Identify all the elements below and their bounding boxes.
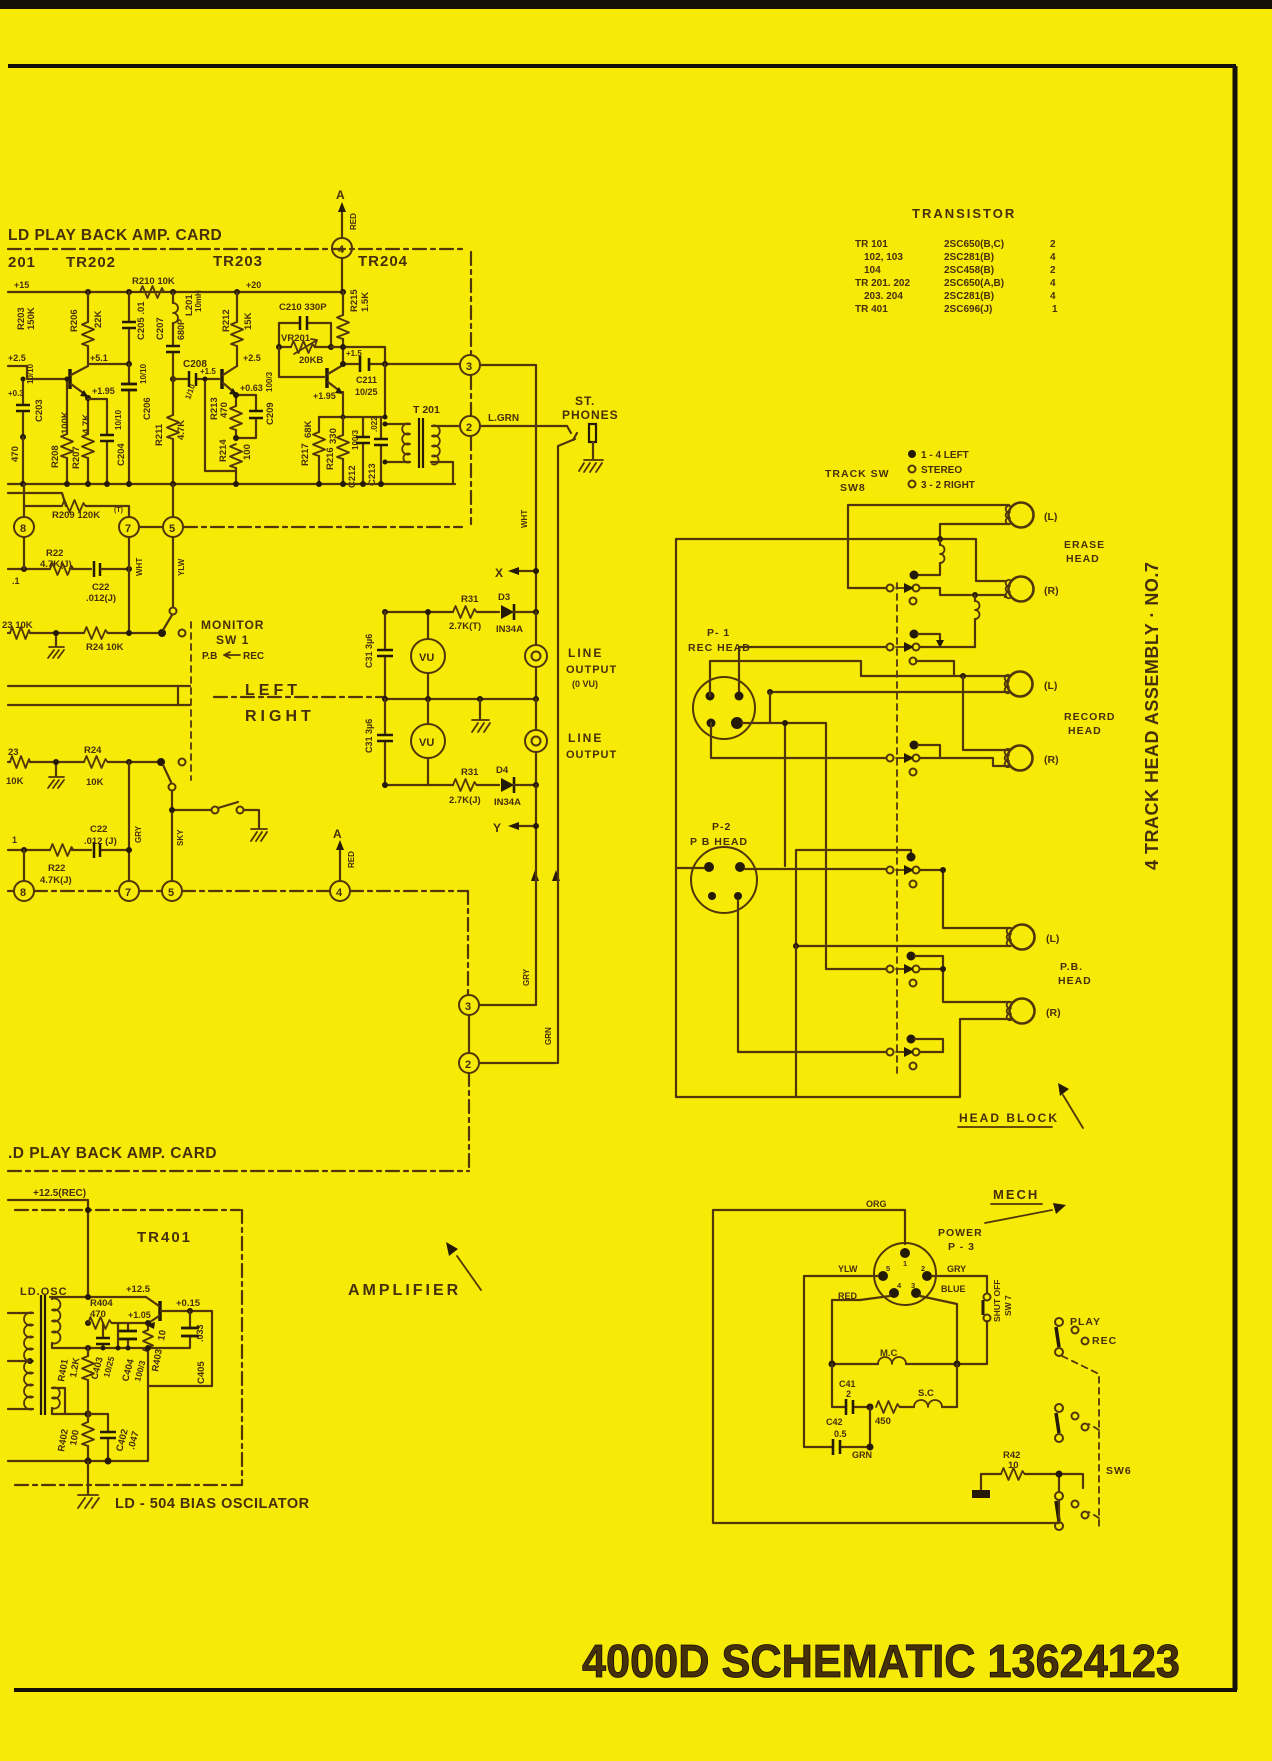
node 7 lower [119, 881, 139, 901]
record head L [1005, 672, 1033, 697]
svg-text:SKY: SKY [176, 829, 185, 846]
svg-text:GRN: GRN [544, 1027, 553, 1045]
svg-text:X: X [495, 566, 503, 580]
svg-text:+1.5: +1.5 [200, 367, 216, 376]
svg-text:C213: C213 [367, 463, 378, 486]
svg-text:SW 1: SW 1 [216, 633, 249, 647]
line output jack upper [525, 645, 547, 667]
wire secondary to node 2 [432, 425, 459, 427]
wire node8 stub [23, 537, 25, 569]
card boundary top dash-dot [8, 248, 466, 250]
svg-text:R24: R24 [84, 745, 102, 756]
svg-text:.022: .022 [370, 416, 379, 432]
svg-text:10: 10 [156, 1329, 169, 1341]
svg-text:MONITOR: MONITOR [201, 618, 264, 632]
node 3 [460, 355, 480, 375]
svg-text:OUTPUT: OUTPUT [566, 664, 617, 676]
svg-text:470: 470 [90, 1309, 106, 1320]
svg-text:10/10: 10/10 [114, 409, 123, 430]
svg-text:R31: R31 [461, 594, 479, 605]
transformer T401 primary winding [24, 1313, 33, 1410]
svg-text:R212: R212 [221, 309, 232, 332]
wire mech outer loop [713, 1210, 1059, 1523]
svg-text:R208: R208 [50, 445, 61, 468]
transformer T401 secondary upper [52, 1299, 60, 1344]
svg-text:10K: 10K [6, 776, 24, 787]
svg-text:4: 4 [336, 887, 343, 899]
wire erase R bottom loop [920, 588, 1005, 597]
svg-text:TR 401: TR 401 [855, 304, 888, 315]
svg-text:100: 100 [242, 444, 253, 460]
node 5 [163, 517, 183, 537]
svg-text:SW8: SW8 [840, 482, 866, 494]
phone jack [567, 426, 577, 440]
svg-text:R22: R22 [48, 863, 65, 874]
amplifier arrow [457, 1256, 481, 1290]
svg-text:5: 5 [168, 887, 174, 899]
ground R23 [55, 633, 57, 646]
svg-text:R206: R206 [69, 309, 80, 332]
inductor erase L [940, 545, 945, 563]
svg-text:RIGHT: RIGHT [245, 708, 315, 725]
svg-text:RECORD: RECORD [1064, 711, 1116, 723]
switch SW6 play/rec group [1055, 1318, 1063, 1326]
head block arrow [1063, 1095, 1083, 1128]
svg-text:R215: R215 [349, 289, 360, 312]
node 7 [119, 517, 139, 537]
svg-text:.D PLAY BACK AMP. CARD: .D PLAY BACK AMP. CARD [8, 1145, 217, 1162]
svg-text:C210 330P: C210 330P [279, 302, 327, 313]
svg-text:TRANSISTOR: TRANSISTOR [912, 206, 1016, 221]
svg-text:L.GRN: L.GRN [488, 413, 519, 424]
wire erase L top [848, 505, 1009, 588]
svg-text:TR 101: TR 101 [855, 239, 888, 250]
svg-text:4: 4 [1050, 278, 1056, 289]
wire output column to lower card [535, 785, 537, 1005]
wire P-2 BR to pb row 3 [738, 901, 886, 1052]
wire erase L bottom [940, 524, 1009, 539]
switch SW8 erase row 2 [910, 630, 919, 639]
svg-text:ORG: ORG [866, 1199, 887, 1209]
wire collector node TR202 [88, 363, 129, 365]
svg-text:R214: R214 [218, 439, 229, 462]
svg-text:GRN: GRN [852, 1450, 872, 1460]
svg-text:C206: C206 [142, 397, 153, 420]
svg-text:5: 5 [886, 1264, 890, 1273]
node 5 lower [162, 881, 182, 901]
svg-text:VU: VU [419, 737, 434, 749]
osc card boundary right [241, 1210, 243, 1485]
svg-text:LD PLAY BACK AMP. CARD: LD PLAY BACK AMP. CARD [8, 227, 222, 244]
svg-text:P B HEAD: P B HEAD [690, 836, 748, 848]
wire YLW [804, 1276, 878, 1447]
VU meter lower [411, 724, 445, 758]
svg-text:450: 450 [875, 1416, 891, 1427]
svg-text:HEAD: HEAD [1066, 553, 1100, 565]
switch SW8 erase row 1 [887, 585, 894, 592]
wire pb L bottom [796, 945, 1010, 947]
svg-text:SHUT OFF: SHUT OFF [992, 1280, 1002, 1323]
transistor TR202 [68, 369, 72, 389]
svg-text:2: 2 [466, 422, 472, 434]
border frame top line [8, 64, 1236, 68]
wire node3 lower to GRY riser [479, 1004, 535, 1006]
svg-text:4.7K(J): 4.7K(J) [40, 875, 72, 886]
svg-text:TR202: TR202 [66, 254, 116, 271]
lower card right edge continued [468, 1015, 470, 1053]
border frame bottom line [14, 1688, 1237, 1692]
ground blob R42 [980, 1474, 982, 1490]
svg-text:IN34A: IN34A [494, 797, 521, 808]
svg-text:C41: C41 [839, 1379, 856, 1389]
svg-text:VR201: VR201 [281, 333, 311, 344]
legend STEREO [909, 466, 916, 473]
svg-text:R210 10K: R210 10K [132, 276, 175, 287]
wire YLW line node5 [172, 537, 174, 607]
wire osc mid bus [88, 1347, 148, 1349]
svg-text:0.5: 0.5 [834, 1429, 847, 1439]
switch SW6 middle group [1055, 1404, 1063, 1412]
ground osc [87, 1461, 89, 1494]
svg-text:2SC650(B,C): 2SC650(B,C) [944, 239, 1004, 250]
svg-text:C204: C204 [116, 443, 127, 466]
node 8 [14, 517, 34, 537]
svg-text:(L): (L) [1044, 511, 1057, 523]
wire GRY line to node7 lower [128, 762, 130, 881]
svg-text:470: 470 [219, 402, 230, 418]
wire node2 lower to GRN riser [479, 1062, 556, 1064]
svg-text:15K: 15K [243, 312, 254, 330]
wire node8 lower stub [23, 850, 25, 881]
wire left channel line [8, 685, 190, 687]
svg-text:.012(J): .012(J) [86, 593, 116, 604]
svg-text:VU: VU [419, 652, 434, 664]
wire GRY to SW7 [932, 1276, 987, 1293]
svg-text:1: 1 [12, 835, 17, 845]
svg-text:2SC281(B): 2SC281(B) [944, 252, 994, 263]
svg-text:GRY: GRY [522, 968, 531, 986]
svg-text:+0.63: +0.63 [240, 383, 263, 393]
svg-text:D3: D3 [498, 592, 510, 603]
svg-text:+2.5: +2.5 [8, 353, 26, 363]
svg-text:LINE: LINE [568, 646, 603, 660]
svg-text:WHT: WHT [135, 558, 144, 576]
svg-text:4: 4 [1050, 252, 1056, 263]
svg-text:10/10: 10/10 [26, 363, 35, 384]
left/right divider dash-dot [214, 696, 385, 698]
node 2 [460, 416, 480, 436]
node 8 lower [14, 881, 34, 901]
svg-text:104: 104 [864, 265, 881, 276]
wire emitter network TR204 [319, 392, 385, 417]
svg-text:2.7K(J): 2.7K(J) [449, 795, 481, 806]
lower card right edge [467, 891, 469, 995]
svg-text:102, 103: 102, 103 [864, 252, 903, 263]
node 2 lower [459, 1053, 479, 1073]
svg-text:A: A [336, 188, 345, 202]
svg-text:REC: REC [1092, 1335, 1117, 1347]
erase head L [1006, 503, 1034, 528]
svg-text:REC: REC [243, 651, 264, 662]
wire channel tie [177, 686, 179, 705]
svg-text:R22: R22 [46, 548, 63, 559]
card boundary right edge [470, 252, 472, 524]
wire SKY line to node5 lower [171, 791, 173, 881]
monitor switch SW1 lower [157, 758, 165, 766]
svg-text:2SC458(B): 2SC458(B) [944, 265, 994, 276]
svg-text:C42: C42 [826, 1417, 843, 1427]
svg-text:10/10: 10/10 [139, 363, 148, 384]
wire pb L bottom riser [795, 946, 797, 1097]
svg-text:(T): (T) [114, 507, 123, 514]
svg-text:R31: R31 [461, 767, 479, 778]
wire record L top [861, 675, 1008, 677]
svg-text:C405: C405 [196, 1361, 207, 1384]
head block box outline [675, 539, 677, 1097]
erase head R [1006, 577, 1034, 602]
wire P-1 to erase row 2 [739, 647, 886, 692]
switch SW6 lower group [1055, 1492, 1063, 1500]
svg-text:2SC696(J): 2SC696(J) [944, 304, 992, 315]
svg-text:+12.5(REC): +12.5(REC) [33, 1188, 86, 1199]
svg-text:IN34A: IN34A [496, 624, 523, 635]
svg-text:ERASE: ERASE [1064, 539, 1105, 551]
line output jack lower [525, 730, 547, 752]
svg-text:RED: RED [349, 213, 358, 230]
svg-text:C22: C22 [92, 582, 109, 593]
track switch dashed line [896, 583, 898, 1078]
monitor switch SW1 upper [170, 608, 177, 615]
wire BLUE [920, 1296, 957, 1364]
svg-text:TR 201. 202: TR 201. 202 [855, 278, 910, 289]
svg-text:RED: RED [347, 851, 356, 868]
pb head L [1007, 925, 1035, 950]
svg-text:TR204: TR204 [358, 253, 408, 270]
svg-text:WHT: WHT [520, 510, 529, 528]
head block bottom edge [676, 1052, 960, 1097]
wire node2 to phones [480, 425, 567, 427]
svg-text:2SC650(A,B): 2SC650(A,B) [944, 278, 1004, 289]
svg-text:3: 3 [465, 1001, 471, 1013]
record head R [1005, 746, 1033, 771]
svg-text:YLW: YLW [177, 558, 186, 576]
svg-text:P.B.: P.B. [1060, 961, 1083, 973]
svg-text:22K: 22K [93, 310, 104, 328]
svg-text:HEAD BLOCK: HEAD BLOCK [959, 1111, 1059, 1125]
svg-text:R217: R217 [300, 443, 311, 466]
svg-text:100K: 100K [60, 411, 71, 434]
VU meter upper [411, 639, 445, 673]
wire record R top riser [963, 676, 1008, 750]
svg-text:+1.95: +1.95 [313, 391, 336, 401]
node 4 lower [330, 881, 350, 901]
svg-text:Y: Y [493, 821, 501, 835]
osc card boundary bottom [15, 1484, 242, 1486]
wire right channel line [8, 704, 190, 706]
legend 1-4 LEFT [908, 450, 916, 458]
transformer T401 secondary lower [52, 1388, 60, 1409]
svg-text:R211: R211 [154, 423, 165, 446]
transistor TR204 [325, 368, 329, 388]
svg-text:S.C: S.C [918, 1388, 934, 1399]
svg-text:+12.5: +12.5 [126, 1284, 151, 1295]
svg-text:4.7K: 4.7K [81, 414, 92, 434]
svg-text:3: 3 [466, 361, 472, 373]
svg-text:AMPLIFIER: AMPLIFIER [348, 1282, 461, 1299]
card boundary bottom dash-dot [184, 526, 462, 528]
svg-text:OUTPUT: OUTPUT [566, 749, 617, 761]
svg-text:GRY: GRY [134, 825, 143, 843]
wire record L bottom [770, 691, 1008, 693]
wire feedback row [331, 347, 385, 364]
wire emitter row [118, 1322, 148, 1324]
border frame right line [1233, 66, 1238, 1690]
svg-text:+0.3: +0.3 [8, 389, 24, 398]
wire TR202 base feed [8, 366, 66, 379]
lower card bottom dash-dot [8, 1170, 469, 1172]
switch SW8 pb row 1 [887, 867, 894, 874]
svg-text:23 10K: 23 10K [2, 620, 33, 631]
svg-text:HEAD: HEAD [1058, 975, 1092, 987]
svg-text:7: 7 [125, 887, 131, 899]
svg-text:P- 1: P- 1 [707, 627, 730, 639]
lower card boundary dash-dot row [8, 890, 468, 892]
svg-text:2: 2 [1050, 239, 1056, 250]
wire VR to TR204 base [279, 347, 324, 377]
transistor TR203 [220, 369, 224, 389]
svg-text:C207: C207 [155, 317, 166, 340]
wire osc bottom rail [8, 1386, 148, 1461]
switch SW7 shut off [984, 1294, 991, 1301]
svg-text:PLAY: PLAY [1070, 1316, 1101, 1328]
inductor erase R [975, 601, 980, 619]
svg-text:D4: D4 [496, 765, 509, 776]
ground mid [479, 699, 481, 719]
svg-text:MECH: MECH [993, 1187, 1039, 1202]
svg-text:+1.95: +1.95 [92, 386, 115, 396]
wire SW6 riser [1059, 1474, 1083, 1492]
transistor TR401 [158, 1301, 162, 1321]
svg-text:2: 2 [921, 1264, 925, 1273]
svg-text:.1: .1 [12, 576, 20, 586]
svg-text:8: 8 [20, 887, 26, 899]
wire bias loop TR203 [205, 379, 236, 471]
svg-text:TR401: TR401 [137, 1229, 192, 1246]
wire base row TR401 [148, 1311, 212, 1386]
svg-text:10mH: 10mH [194, 290, 203, 312]
ground R23 lower [55, 762, 57, 776]
svg-text:A: A [333, 827, 342, 841]
svg-text:2: 2 [1050, 265, 1056, 276]
svg-text:YLW: YLW [838, 1264, 858, 1274]
net A arrow up [341, 210, 343, 238]
svg-text:2SC281(B): 2SC281(B) [944, 291, 994, 302]
svg-text:TRACK SW: TRACK SW [825, 468, 890, 480]
svg-text:3 - 2 RIGHT: 3 - 2 RIGHT [921, 480, 975, 491]
svg-text:100/3: 100/3 [265, 371, 274, 392]
svg-text:470: 470 [10, 446, 21, 462]
svg-text:R216: R216 [325, 447, 336, 470]
svg-text:2: 2 [465, 1059, 471, 1071]
wire RED [832, 1296, 890, 1364]
svg-text:(L): (L) [1044, 680, 1057, 692]
svg-text:C205 .01: C205 .01 [136, 301, 147, 340]
svg-text:8: 8 [20, 523, 26, 535]
svg-text:1: 1 [1052, 304, 1058, 315]
svg-text:LD - 504 BIAS OSCILATOR: LD - 504 BIAS OSCILATOR [115, 1496, 310, 1512]
svg-text:150K: 150K [26, 307, 37, 330]
wire P-1 BL to record row [711, 723, 886, 758]
svg-text:P - 3: P - 3 [948, 1241, 975, 1253]
svg-text:330: 330 [328, 428, 339, 444]
svg-text:STEREO: STEREO [921, 465, 962, 476]
svg-text:1: 1 [903, 1259, 907, 1268]
svg-text:+20: +20 [246, 280, 261, 290]
wire secondary bottom loop [431, 462, 453, 484]
wire C211 tap vertical [384, 364, 386, 417]
svg-text:+2.5: +2.5 [243, 353, 261, 363]
osc card boundary top [15, 1209, 240, 1211]
switch SW8 pb row 2 [907, 952, 916, 961]
svg-text:201: 201 [8, 254, 36, 271]
net A arrow lower [339, 848, 341, 881]
SW6 dashed link [1062, 1356, 1099, 1528]
wire SW6 to bottom loop [1058, 1500, 1060, 1519]
svg-text:+0.15: +0.15 [176, 1298, 201, 1309]
svg-text:20KB: 20KB [299, 355, 323, 366]
svg-text:P.B: P.B [202, 651, 217, 662]
svg-text:4: 4 [1050, 291, 1056, 302]
svg-text:BLUE: BLUE [941, 1284, 966, 1294]
svg-text:R209 120K: R209 120K [52, 510, 100, 521]
svg-text:LINE: LINE [568, 731, 603, 745]
svg-text:C211: C211 [356, 375, 377, 385]
svg-text:SW 7: SW 7 [1003, 1295, 1013, 1316]
svg-text:TR203: TR203 [213, 253, 263, 270]
svg-text:R24 10K: R24 10K [86, 642, 124, 653]
svg-text:(R): (R) [1046, 1007, 1061, 1019]
wire osc rail [50, 1296, 146, 1298]
svg-text:C22: C22 [90, 824, 107, 835]
switch SW8 pb row 3 [907, 1035, 916, 1044]
svg-text:+5.1: +5.1 [90, 353, 108, 363]
svg-text:10K: 10K [86, 777, 104, 788]
monitor dashed box [190, 622, 192, 780]
svg-text:23: 23 [8, 747, 19, 758]
svg-text:2.7K(T): 2.7K(T) [449, 621, 481, 632]
svg-text:C209: C209 [265, 402, 276, 425]
svg-text:68K: 68K [303, 420, 314, 438]
svg-text:POWER: POWER [938, 1227, 983, 1239]
wire head block top edge [676, 539, 1005, 581]
black scan strip top edge [0, 0, 1272, 9]
svg-text:1.5K: 1.5K [360, 292, 371, 312]
svg-text:C203: C203 [34, 399, 45, 422]
wire P-1 TL to record L top [710, 661, 861, 696]
svg-text:R207: R207 [71, 446, 82, 469]
svg-text:GRY: GRY [947, 1264, 966, 1274]
mech arrow [985, 1210, 1052, 1223]
legend 3-2 RIGHT [909, 481, 916, 488]
svg-text:R404: R404 [90, 1298, 113, 1309]
svg-text:C31 3µ6: C31 3µ6 [364, 634, 374, 668]
node 3 lower [459, 995, 479, 1015]
switch to ground lower [172, 809, 211, 811]
node 4 [332, 238, 352, 258]
svg-text:(R): (R) [1044, 585, 1059, 597]
svg-text:4 TRACK HEAD ASSEMBLY · NO.7: 4 TRACK HEAD ASSEMBLY · NO.7 [1142, 562, 1162, 870]
wire lower return [8, 493, 66, 506]
